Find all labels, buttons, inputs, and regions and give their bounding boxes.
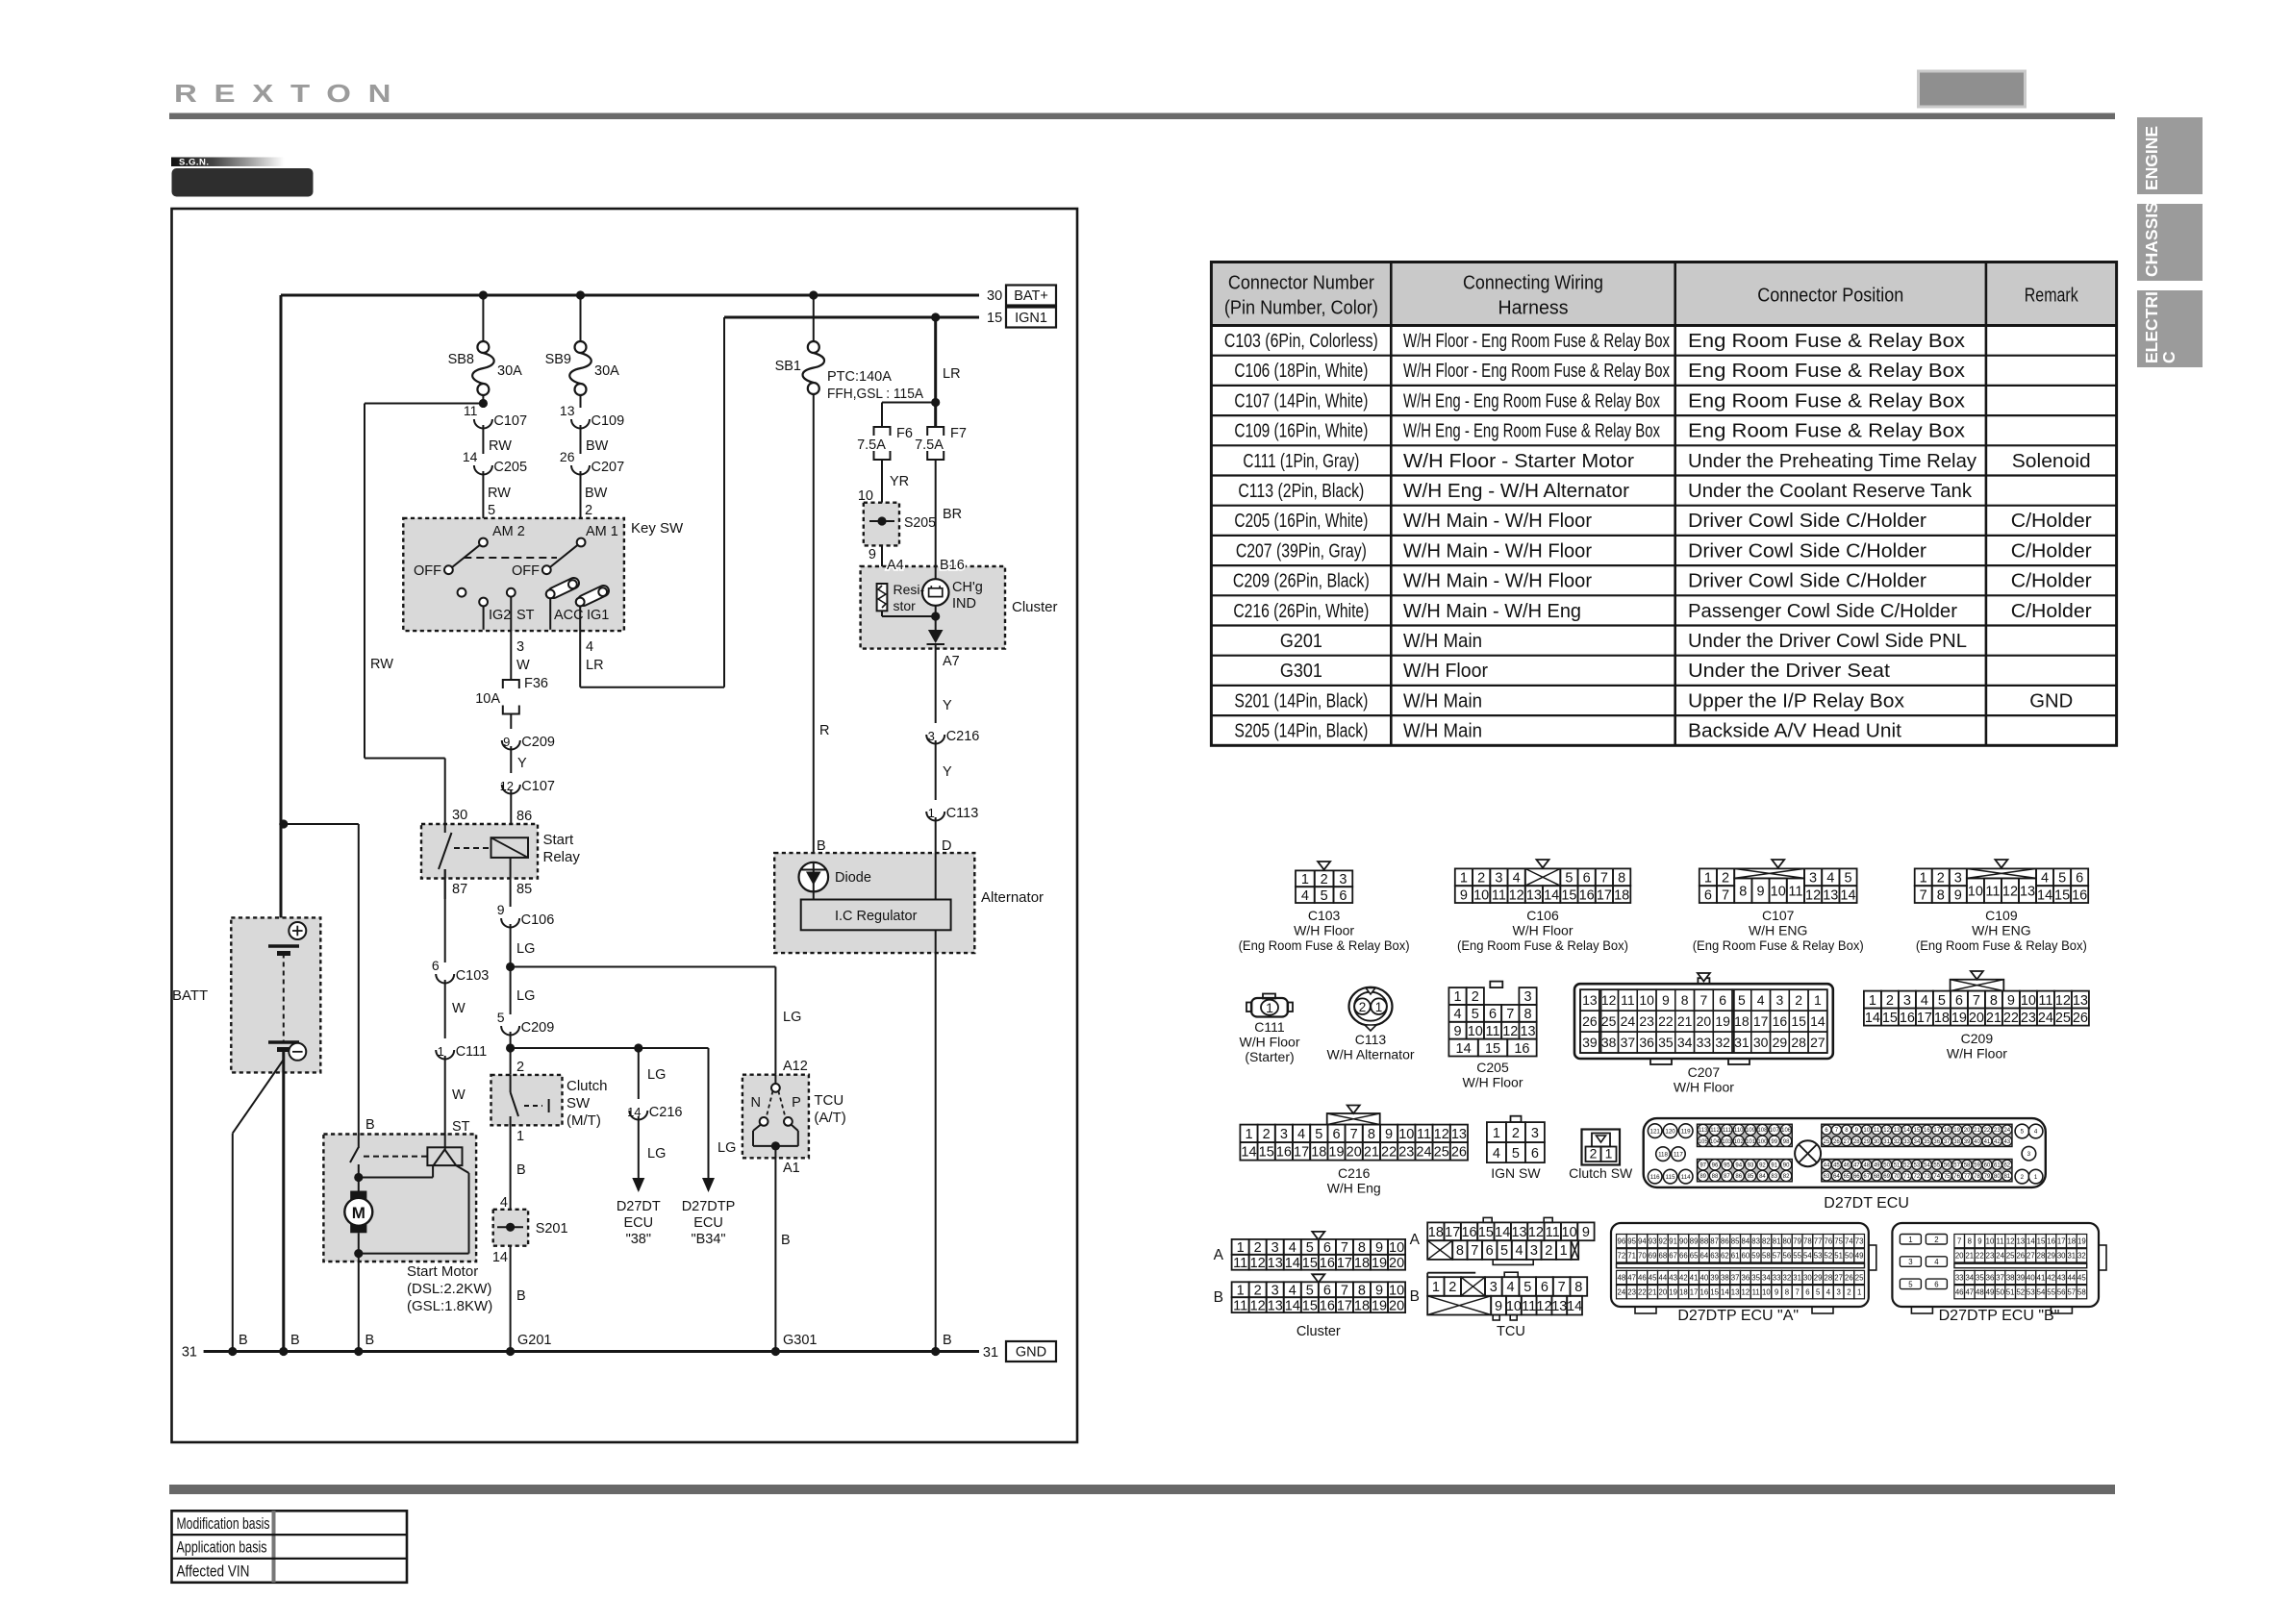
svg-text:7: 7 [1341,1240,1348,1256]
svg-text:4: 4 [2034,1129,2038,1136]
svg-text:1: 1 [1920,871,1927,887]
svg-text:50: 50 [1996,1288,2004,1297]
svg-text:16: 16 [1461,1225,1476,1240]
svg-text:12: 12 [1883,1128,1890,1134]
svg-text:11: 11 [1233,1298,1247,1313]
svg-text:16: 16 [1579,887,1595,903]
svg-text:4: 4 [1515,1243,1523,1259]
svg-text:30A: 30A [594,363,619,379]
svg-text:9: 9 [869,547,876,562]
svg-text:30: 30 [1874,1139,1880,1145]
svg-text:18: 18 [1734,1013,1750,1029]
svg-text:108: 108 [1757,1128,1768,1134]
svg-text:16: 16 [1320,1298,1335,1313]
svg-text:75: 75 [1944,1174,1951,1180]
svg-text:1: 1 [1237,1283,1245,1298]
svg-text:1: 1 [1605,1146,1613,1162]
svg-text:3: 3 [1490,1280,1498,1295]
svg-text:22: 22 [1381,1145,1397,1161]
svg-text:LG: LG [783,1010,801,1025]
svg-text:53: 53 [2027,1288,2035,1297]
svg-text:RW: RW [488,486,511,501]
svg-text:86: 86 [1735,1174,1742,1180]
svg-text:12: 12 [2055,993,2071,1009]
svg-text:7.5A: 7.5A [857,437,886,453]
svg-text:B: B [943,1333,952,1348]
svg-text:5: 5 [1816,1288,1821,1297]
svg-text:7: 7 [1471,1243,1478,1259]
svg-text:104: 104 [1710,1139,1721,1145]
svg-text:7: 7 [1722,887,1729,903]
svg-text:9: 9 [1495,1299,1502,1314]
svg-text:13: 13 [1268,1256,1283,1271]
svg-text:15: 15 [987,311,1002,326]
svg-text:3: 3 [1954,871,1962,887]
svg-text:33: 33 [1903,1139,1910,1145]
svg-text:LG: LG [516,941,535,957]
svg-text:11: 11 [1874,1128,1880,1134]
svg-text:89: 89 [1690,1237,1699,1245]
svg-text:17: 17 [1597,887,1612,903]
svg-text:C111 (1Pin, Gray): C111 (1Pin, Gray) [1243,451,1359,472]
svg-text:SB8: SB8 [448,352,474,367]
svg-text:74: 74 [1845,1237,1853,1245]
svg-text:79: 79 [1793,1237,1801,1245]
svg-text:26: 26 [2073,1011,2088,1026]
svg-text:16: 16 [2047,1237,2055,1245]
svg-text:83: 83 [1751,1237,1760,1245]
svg-text:BATT: BATT [172,987,208,1004]
svg-text:42: 42 [2047,1273,2055,1282]
svg-text:10: 10 [1506,1299,1522,1314]
svg-text:19: 19 [2077,1237,2086,1245]
svg-text:Eng Room Fuse & Relay Box: Eng Room Fuse & Relay Box [1688,361,1965,382]
svg-text:74: 74 [1933,1174,1940,1180]
svg-text:65: 65 [1690,1252,1699,1261]
svg-text:4: 4 [1453,1007,1461,1022]
svg-text:(Eng Room Fuse & Relay Box): (Eng Room Fuse & Relay Box) [1239,937,1410,953]
svg-text:4: 4 [1301,888,1309,904]
svg-text:26: 26 [2016,1252,2025,1261]
svg-text:14: 14 [1840,887,1855,903]
svg-text:61: 61 [1994,1162,2001,1168]
svg-text:63: 63 [1710,1252,1719,1261]
svg-text:25: 25 [1601,1013,1617,1029]
svg-text:19: 19 [1951,1011,1967,1026]
svg-text:56: 56 [2057,1288,2066,1297]
svg-text:119: 119 [1681,1128,1691,1135]
svg-text:S.G.N.: S.G.N. [179,158,210,168]
svg-text:OFF: OFF [414,563,441,579]
svg-text:10: 10 [1473,887,1489,903]
svg-text:30: 30 [987,288,1002,304]
svg-text:C205 (16Pin, White): C205 (16Pin, White) [1234,511,1368,532]
svg-text:92: 92 [1659,1237,1668,1245]
svg-text:12: 12 [1805,887,1821,903]
svg-text:19: 19 [1372,1256,1387,1271]
svg-text:9: 9 [1954,887,1962,903]
svg-text:ECU: ECU [623,1215,653,1231]
svg-text:Passenger Cowl Side C/Holder: Passenger Cowl Side C/Holder [1688,601,1957,622]
svg-text:22: 22 [1976,1252,1984,1261]
svg-text:1: 1 [1301,872,1309,887]
svg-text:GND: GND [2029,690,2073,712]
svg-text:57: 57 [1773,1252,1781,1261]
svg-text:C216: C216 [946,729,980,744]
svg-text:2: 2 [1254,1240,1262,1256]
svg-text:Relay: Relay [543,849,581,865]
svg-text:2: 2 [2021,1174,2025,1181]
svg-text:10: 10 [1468,1024,1483,1039]
svg-text:2: 2 [1590,1146,1598,1162]
svg-text:52: 52 [1825,1252,1833,1261]
svg-text:78: 78 [1803,1237,1812,1245]
svg-text:70: 70 [1894,1174,1901,1180]
svg-text:116: 116 [1650,1174,1660,1181]
svg-text:C109: C109 [1985,908,2018,923]
svg-text:16: 16 [1700,1288,1709,1297]
svg-text:38: 38 [1601,1035,1617,1050]
svg-text:44: 44 [2067,1273,2076,1282]
svg-text:Y: Y [943,698,952,713]
svg-text:1: 1 [1237,1240,1245,1256]
svg-text:N: N [751,1095,761,1111]
svg-text:4: 4 [1289,1283,1297,1298]
svg-text:6: 6 [1805,1288,1809,1297]
svg-text:B: B [239,1333,248,1348]
svg-text:10A: 10A [475,691,500,707]
svg-text:W/H Floor - Starter Motor: W/H Floor - Starter Motor [1403,451,1634,472]
svg-text:Remark: Remark [2025,286,2079,307]
svg-text:9: 9 [2007,993,2015,1009]
svg-text:22: 22 [1984,1128,1991,1134]
svg-text:13: 13 [560,403,575,418]
svg-text:GND: GND [1016,1345,1046,1361]
svg-text:D27DTP ECU "B": D27DTP ECU "B" [1939,1308,2060,1324]
svg-text:43: 43 [1669,1273,1677,1282]
svg-text:9: 9 [497,902,505,917]
svg-text:14: 14 [1567,1299,1582,1314]
svg-text:40: 40 [2027,1273,2035,1282]
svg-text:AM 1: AM 1 [586,524,618,539]
svg-text:8: 8 [1618,871,1625,887]
svg-text:3: 3 [516,639,524,655]
svg-text:120: 120 [1665,1128,1675,1135]
svg-text:30: 30 [1803,1273,1812,1282]
svg-text:37: 37 [1944,1139,1951,1145]
svg-text:C103: C103 [456,968,490,984]
svg-text:26: 26 [1451,1145,1467,1161]
svg-text:3: 3 [1809,871,1817,887]
svg-text:81: 81 [2003,1174,2010,1180]
svg-text:10: 10 [1389,1283,1404,1298]
svg-text:W/H ENG: W/H ENG [1972,923,2030,938]
svg-text:27: 27 [1834,1273,1843,1282]
svg-text:S201: S201 [536,1221,568,1237]
svg-text:6: 6 [432,958,440,973]
svg-text:103: 103 [1722,1139,1732,1145]
svg-text:12: 12 [1742,1288,1750,1297]
svg-text:40: 40 [1700,1273,1709,1282]
svg-text:21: 21 [1364,1145,1379,1161]
svg-text:61: 61 [1731,1252,1740,1261]
svg-text:A12: A12 [783,1059,808,1074]
svg-text:LR: LR [943,366,961,382]
svg-text:1: 1 [1245,1127,1252,1142]
svg-text:14: 14 [2027,1237,2035,1245]
svg-text:11: 11 [1546,1225,1560,1240]
svg-text:44: 44 [1659,1273,1668,1282]
svg-text:G301: G301 [1280,661,1322,682]
svg-text:13: 13 [1894,1128,1901,1134]
svg-text:ENGINE: ENGINE [2142,126,2161,190]
svg-text:70: 70 [1638,1252,1647,1261]
svg-text:C103: C103 [1308,908,1341,923]
svg-text:47: 47 [1627,1273,1636,1282]
svg-text:39: 39 [1964,1139,1971,1145]
svg-text:5: 5 [1500,1243,1508,1259]
svg-text:CHASSIS: CHASSIS [2142,202,2161,277]
svg-text:20: 20 [1659,1288,1668,1297]
svg-text:(M/T): (M/T) [566,1112,601,1129]
svg-text:W/H Floor: W/H Floor [1674,1080,1734,1095]
svg-text:1: 1 [1869,993,1876,1009]
svg-text:10: 10 [1968,884,1983,899]
svg-text:20: 20 [1964,1128,1971,1134]
svg-text:115: 115 [1666,1174,1675,1181]
svg-text:ACC: ACC [554,608,584,623]
svg-text:19: 19 [1953,1128,1960,1134]
svg-text:5: 5 [1306,1240,1314,1256]
svg-text:32: 32 [1783,1273,1792,1282]
svg-text:72: 72 [1914,1174,1921,1180]
svg-text:21: 21 [1965,1252,1974,1261]
svg-text:11: 11 [2038,993,2052,1009]
svg-text:F7: F7 [950,426,967,441]
svg-text:25: 25 [1824,1139,1830,1145]
svg-text:95: 95 [1627,1237,1636,1245]
svg-text:25: 25 [2006,1252,2015,1261]
svg-text:2: 2 [1795,992,1802,1008]
svg-text:54: 54 [1803,1252,1812,1261]
svg-text:IND: IND [952,596,976,612]
svg-text:23: 23 [1639,1013,1654,1029]
svg-text:C209: C209 [521,1020,555,1036]
svg-text:20: 20 [1955,1252,1964,1261]
svg-text:21: 21 [1974,1128,1980,1134]
svg-text:2: 2 [1263,1127,1271,1142]
svg-text:12: 12 [1536,1299,1551,1314]
svg-text:23: 23 [2021,1011,2036,1026]
svg-text:A4: A4 [887,558,904,573]
svg-text:6: 6 [2076,871,2083,887]
svg-text:52: 52 [2016,1288,2025,1297]
svg-text:12: 12 [1509,887,1524,903]
svg-text:Connecting Wiring: Connecting Wiring [1463,273,1603,294]
svg-text:SW: SW [566,1095,591,1112]
svg-text:14: 14 [1241,1145,1256,1161]
svg-text:9: 9 [1460,887,1468,903]
svg-text:8: 8 [1785,1288,1789,1297]
svg-text:W/H Main - W/H Floor: W/H Main - W/H Floor [1403,571,1592,592]
svg-text:IGN1: IGN1 [1015,311,1047,326]
svg-text:1: 1 [1432,1280,1440,1295]
svg-text:1: 1 [516,1129,524,1144]
svg-text:48: 48 [1976,1288,1984,1297]
svg-text:7: 7 [1506,1007,1514,1022]
svg-text:13: 13 [1511,1225,1526,1240]
svg-text:5: 5 [1938,993,1946,1009]
svg-text:40: 40 [1974,1139,1980,1145]
svg-text:9: 9 [1977,1237,1981,1245]
svg-text:14: 14 [1456,1041,1472,1057]
svg-text:26: 26 [1833,1139,1840,1145]
svg-text:29: 29 [1773,1035,1788,1050]
svg-text:16: 16 [1320,1256,1335,1271]
svg-text:13: 13 [1451,1127,1467,1142]
svg-text:60: 60 [1742,1252,1750,1261]
svg-text:C113: C113 [946,806,979,821]
svg-text:7: 7 [1795,1288,1799,1297]
svg-text:17: 17 [1294,1145,1309,1161]
svg-text:B: B [817,838,826,854]
svg-text:69: 69 [1649,1252,1657,1261]
svg-text:1: 1 [1266,1000,1273,1015]
svg-text:Y: Y [943,764,952,780]
svg-text:W/H Main - W/H Eng: W/H Main - W/H Eng [1403,601,1581,622]
svg-text:6: 6 [1583,871,1591,887]
svg-text:11: 11 [1522,1299,1536,1314]
svg-text:7.5A: 7.5A [915,437,944,453]
svg-text:C109: C109 [592,413,625,429]
svg-text:W/H Main - W/H Floor: W/H Main - W/H Floor [1403,540,1592,562]
svg-text:15: 15 [1561,887,1576,903]
svg-text:B16: B16 [940,558,965,573]
svg-text:28: 28 [1825,1273,1833,1282]
svg-text:10: 10 [1398,1127,1414,1142]
svg-text:14: 14 [1903,1128,1910,1134]
svg-text:W/H Floor: W/H Floor [1513,923,1573,938]
svg-text:49: 49 [1855,1252,1864,1261]
svg-text:7: 7 [1973,993,1980,1009]
svg-text:51: 51 [1834,1252,1843,1261]
svg-text:S205 (14Pin, Black): S205 (14Pin, Black) [1234,721,1368,742]
svg-text:68: 68 [1659,1252,1668,1261]
svg-text:8: 8 [1681,992,1689,1008]
svg-text:31: 31 [983,1345,998,1361]
svg-text:W/H Floor - Eng Room Fuse & Re: W/H Floor - Eng Room Fuse & Relay Box [1403,361,1670,382]
svg-text:45: 45 [1833,1162,1840,1168]
svg-text:24: 24 [1996,1252,2004,1261]
svg-text:Alternator: Alternator [981,889,1044,906]
svg-text:W/H Floor - Eng Room Fuse & Re: W/H Floor - Eng Room Fuse & Relay Box [1403,331,1670,352]
svg-text:39: 39 [1710,1273,1719,1282]
svg-text:RW: RW [370,657,393,672]
svg-text:6: 6 [1339,888,1347,904]
svg-text:91: 91 [1669,1237,1677,1245]
svg-text:31: 31 [2067,1252,2076,1261]
svg-text:Eng Room Fuse & Relay Box: Eng Room Fuse & Relay Box [1688,331,1965,352]
svg-text:D27DT: D27DT [617,1199,661,1214]
svg-text:15: 15 [1485,1041,1500,1057]
svg-text:2: 2 [1545,1243,1552,1259]
svg-text:Under the Preheating Time Rela: Under the Preheating Time Relay [1688,451,1976,472]
svg-text:Cluster: Cluster [1012,599,1058,615]
svg-text:10: 10 [1986,1237,1995,1245]
svg-text:11: 11 [1233,1256,1247,1271]
svg-text:Driver Cowl Side C/Holder: Driver Cowl Side C/Holder [1688,571,1926,592]
svg-text:8: 8 [1368,1127,1375,1142]
svg-text:D27DTP ECU "A": D27DTP ECU "A" [1677,1308,1799,1324]
svg-text:17: 17 [1933,1128,1940,1134]
svg-text:113: 113 [1699,1128,1708,1134]
svg-text:(Starter): (Starter) [1245,1049,1294,1064]
svg-text:C107 (14Pin, White): C107 (14Pin, White) [1234,390,1368,412]
svg-text:A: A [1214,1247,1224,1263]
svg-text:101: 101 [1746,1139,1756,1145]
svg-text:G301: G301 [783,1333,817,1348]
svg-text:51: 51 [2006,1288,2015,1297]
svg-text:C209 (26Pin, Black): C209 (26Pin, Black) [1233,571,1370,592]
svg-text:3: 3 [2027,1151,2031,1158]
svg-text:22: 22 [1638,1288,1647,1297]
svg-text:B: B [1410,1288,1420,1305]
svg-text:24: 24 [1621,1013,1636,1029]
svg-text:29: 29 [2047,1252,2055,1261]
svg-text:4: 4 [586,639,593,655]
svg-text:C/Holder: C/Holder [2011,540,2092,562]
svg-text:10: 10 [2021,993,2036,1009]
svg-text:32: 32 [1715,1035,1730,1050]
svg-text:15: 15 [1791,1013,1806,1029]
svg-text:4: 4 [1507,1280,1515,1295]
svg-text:13: 13 [2020,884,2035,899]
svg-text:Under the Coolant Reserve Tank: Under the Coolant Reserve Tank [1688,481,1973,502]
svg-text:8: 8 [1968,1237,1972,1245]
svg-text:BW: BW [586,438,609,454]
svg-text:60: 60 [1984,1162,1991,1168]
svg-text:5: 5 [488,503,495,518]
svg-text:YR: YR [890,474,909,489]
svg-text:2: 2 [1937,871,1945,887]
svg-text:M: M [352,1204,365,1222]
svg-text:13: 13 [2073,993,2088,1009]
svg-text:2: 2 [1472,989,1479,1005]
svg-text:21: 21 [1677,1013,1693,1029]
svg-text:42: 42 [1679,1273,1688,1282]
svg-text:16: 16 [1276,1145,1292,1161]
svg-text:31: 31 [1883,1139,1890,1145]
svg-text:7: 7 [1600,871,1608,887]
svg-text:88: 88 [1700,1237,1709,1245]
svg-text:C113: C113 [1355,1032,1387,1047]
svg-text:PTC:140A: PTC:140A [827,369,892,385]
svg-text:13: 13 [1823,887,1838,903]
svg-text:4: 4 [2041,871,2049,887]
svg-text:4: 4 [1757,992,1765,1008]
svg-text:52: 52 [1903,1162,1910,1168]
svg-text:W/H Main: W/H Main [1403,631,1482,652]
svg-text:W: W [516,658,530,673]
svg-text:S201 (14Pin, Black): S201 (14Pin, Black) [1234,690,1368,712]
svg-text:29: 29 [1863,1139,1870,1145]
svg-text:6: 6 [1719,992,1726,1008]
svg-text:92: 92 [1759,1162,1766,1168]
svg-text:16: 16 [2072,887,2087,903]
svg-text:C109 (16Pin, White): C109 (16Pin, White) [1234,421,1368,442]
svg-text:6: 6 [1323,1240,1331,1256]
svg-text:6: 6 [1489,1007,1497,1022]
